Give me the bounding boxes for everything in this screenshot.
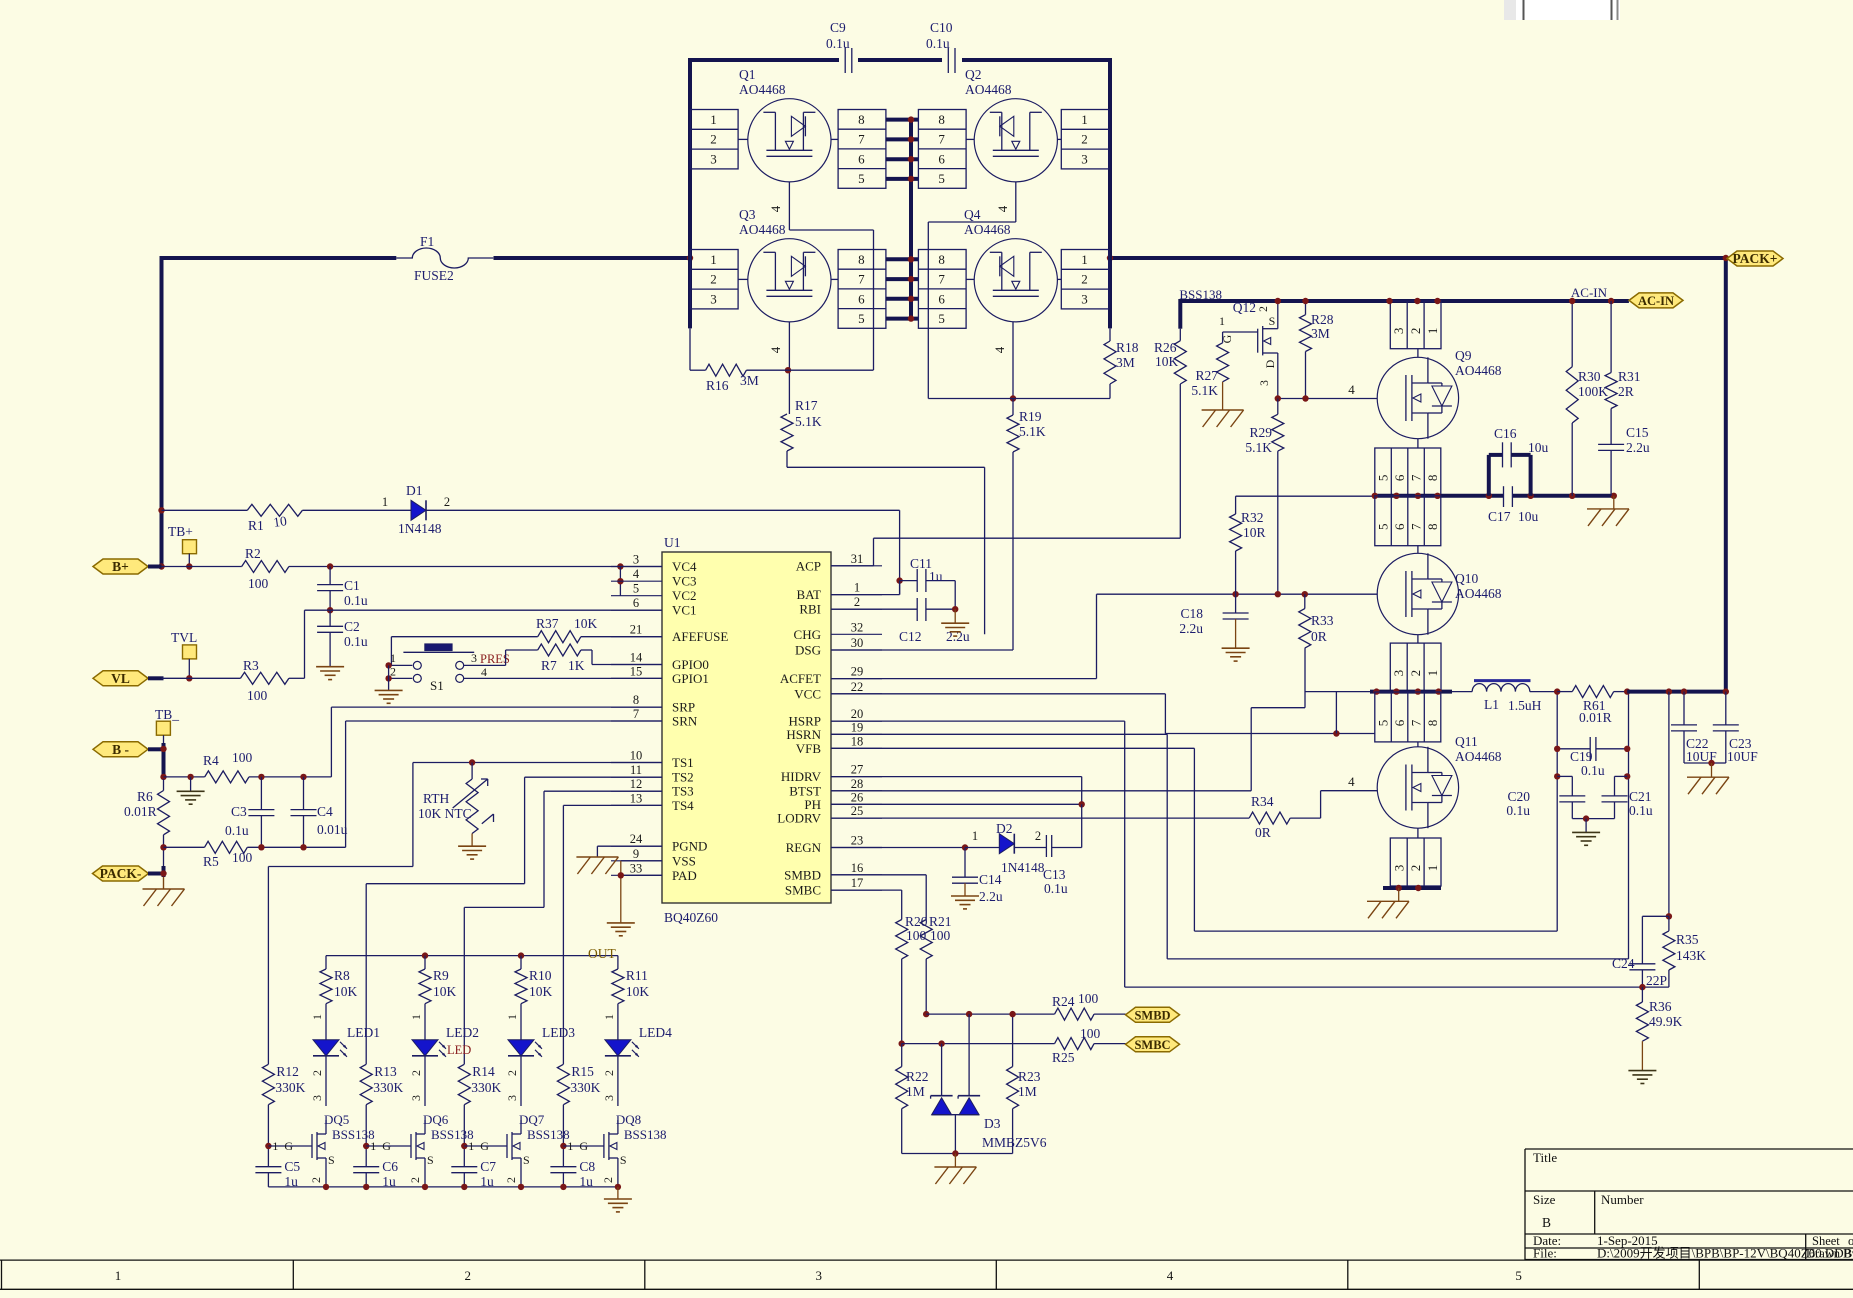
wire: VCC staircase to Q11 box [831,694,1375,734]
svg-text:Q3: Q3 [739,207,756,222]
transistor DQ5 BSS138 [268,1112,374,1183]
svg-text:C14: C14 [979,872,1002,887]
junction C19 left [1554,746,1560,752]
svg-text:Q9: Q9 [1455,348,1472,363]
wire: HSRN to R61 right sense [831,692,1629,959]
svg-text:R15: R15 [571,1064,594,1079]
wire: PH row [831,803,1082,805]
svg-text:2: 2 [464,1268,471,1283]
wire: pin4 row y398.5 [928,398,1110,400]
svg-text:1M: 1M [1018,1084,1037,1099]
svg-text:1: 1 [710,112,717,127]
svg-text:13: 13 [630,791,643,805]
svg-text:R6: R6 [137,789,153,804]
resistor R29 5.1K [1245,399,1283,595]
capacitor C15 2.2u [1598,425,1650,496]
svg-text:SMBD: SMBD [1134,1008,1170,1022]
svg-text:Q11: Q11 [1455,734,1478,749]
svg-text:7: 7 [858,132,865,147]
svg-text:1: 1 [710,252,717,267]
junction Q4 pin4 node [1010,395,1016,401]
junctions C16 row [1372,493,1617,499]
svg-text:7: 7 [1409,719,1424,726]
svg-text:1: 1 [602,1014,616,1020]
svg-text:1: 1 [468,1139,474,1153]
resistor R31 2R [1605,301,1640,444]
wire: BTST row [831,648,1305,791]
svg-text:C13: C13 [1043,867,1066,882]
svg-text:1: 1 [505,1014,519,1020]
svg-text:0.01u: 0.01u [317,822,348,837]
wire: SMBD riser [831,875,926,920]
resistor R34 0R [1249,794,1320,840]
svg-text:PACK-: PACK- [100,866,142,881]
junction R4 row [160,774,166,780]
svg-text:C9: C9 [830,20,846,35]
junction PACK- node [160,870,166,876]
wire: D1 to BAT riser [899,510,901,594]
svg-text:5: 5 [938,311,945,326]
port PACK- [93,866,164,881]
svg-text:VSS: VSS [672,853,696,868]
terminal TB_ [155,707,179,749]
svg-text:R23: R23 [1018,1069,1041,1084]
wire: gate column DQ6 [365,1105,367,1167]
svg-text:Size: Size [1533,1192,1556,1207]
svg-text:1M: 1M [906,1084,925,1099]
wire: Q3 thick stubs to bus [886,259,919,318]
svg-text:B+: B+ [112,559,129,574]
svg-text:HSRN: HSRN [786,727,821,742]
ground C22/C23 [1687,763,1729,794]
svg-text:0.1u: 0.1u [926,36,950,51]
capacitor C24 22P [1612,956,1667,988]
label AC-IN net [1571,285,1608,300]
svg-text:SMBC: SMBC [1134,1038,1170,1052]
wire: AC-IN thick rail [1180,299,1629,329]
junction R21/SMBD row [923,1011,929,1017]
svg-text:4: 4 [1167,1268,1174,1283]
svg-text:GPIO1: GPIO1 [672,671,709,686]
svg-text:2: 2 [309,1177,323,1183]
svg-text:8: 8 [858,112,865,127]
svg-text:C1: C1 [344,578,360,593]
svg-text:DSG: DSG [795,643,821,658]
junction Q12 source [1275,298,1281,304]
svg-text:2R: 2R [1618,384,1634,399]
svg-text:2.2u: 2.2u [1626,440,1650,455]
svg-text:TS4: TS4 [672,798,694,813]
junction VCC stair tee [1333,730,1339,736]
svg-text:C2: C2 [344,619,360,634]
svg-text:DQ7: DQ7 [519,1112,545,1127]
svg-text:100: 100 [248,576,269,591]
capacitor C19 0.1u [1557,737,1627,778]
svg-text:R2: R2 [245,546,261,561]
svg-text:R13: R13 [374,1064,397,1079]
svg-text:DQ5: DQ5 [324,1112,349,1127]
svg-text:2: 2 [409,1070,423,1076]
inductor L1 1.5uH [1452,681,1557,713]
port AC-IN [1629,293,1683,308]
svg-text:7: 7 [633,707,639,721]
junction B- node [160,746,166,752]
svg-text:7: 7 [938,132,945,147]
svg-text:VC4: VC4 [672,559,697,574]
wire: SMBC net row [902,1043,1055,1045]
junction rail end [615,1184,621,1190]
junction S1 pin2 [385,675,391,681]
resistor R18 3M [1104,328,1139,398]
svg-text:GPIO0: GPIO0 [672,657,709,672]
wire: Q9 pin4 row [1278,382,1377,399]
svg-text:0.01R: 0.01R [124,804,157,819]
junction R35 top [1666,913,1672,919]
resistor R12 330K [262,1064,305,1105]
svg-text:15: 15 [630,664,643,678]
svg-text:4: 4 [1348,774,1355,789]
junction R28 bottom [1302,395,1308,401]
junction B+ hex node [158,563,164,569]
wire: tee from switch row [1335,692,1337,734]
svg-text:10R: 10R [1243,525,1266,540]
wire: main B+ thick rail y258 [162,256,397,260]
resistor R1 10 [162,504,386,533]
wire: SRN riser [346,721,662,847]
ground PACK- [143,877,185,906]
svg-text:1: 1 [1081,112,1088,127]
svg-text:21: 21 [630,623,643,637]
svg-text:10K NTC: 10K NTC [418,806,472,821]
svg-text:8: 8 [1425,475,1440,482]
svg-text:10UF: 10UF [1727,749,1758,764]
svg-text:28: 28 [851,777,864,791]
svg-text:6: 6 [858,151,865,166]
junction gate DQ5 [265,1143,271,1149]
svg-text:C7: C7 [480,1159,496,1174]
resistor R23 1M [1007,1014,1041,1153]
svg-text:SRN: SRN [672,714,698,729]
capacitor C20 0.1u [1506,776,1586,818]
wire: HSRP to R36 node [831,721,1641,987]
wire: rail from fuse to Q-block [494,256,691,260]
svg-text:22P: 22P [1646,973,1667,988]
ground LED rail [604,1187,632,1212]
resistor R15 330K [557,1064,600,1105]
wire: S1 pin3 jog [464,650,538,665]
svg-text:2: 2 [444,495,450,509]
junction TB+ stub [186,563,192,569]
svg-text:0.1u: 0.1u [1506,803,1530,818]
svg-text:File:: File: [1533,1246,1557,1261]
svg-text:BAT: BAT [796,587,821,602]
wire: C16/C17 thick row [1375,494,1614,498]
svg-text:LED: LED [447,1043,471,1057]
svg-text:PH: PH [804,797,821,812]
svg-text:AO4468: AO4468 [739,222,786,237]
svg-text:10u: 10u [1518,509,1539,524]
junction C4 top [300,774,306,780]
junction R29 bottom [1275,591,1281,597]
wire: HIDRV row [831,777,1082,805]
junction Q12 drain node [1275,395,1281,401]
wire: SRP riser [331,707,662,777]
svg-text:14: 14 [630,651,643,665]
svg-text:L1: L1 [1484,697,1499,712]
svg-text:R36: R36 [1649,999,1672,1014]
svg-text:R22: R22 [906,1069,929,1084]
junction C3 bottom [258,844,264,850]
wire: TS3 staircase to Q7 gate [464,791,662,1064]
svg-text:R10: R10 [529,968,552,983]
svg-text:26: 26 [851,790,864,804]
svg-text:1N4148: 1N4148 [1001,860,1045,875]
transistor Q12 BSS138 [1179,287,1277,399]
svg-text:1: 1 [272,1139,278,1153]
junction C3 top [258,774,264,780]
screen artifact top [1504,0,1620,20]
resistor R27 5.1K [1191,343,1228,410]
resistor R10 10K [505,956,553,1040]
svg-text:100: 100 [247,688,268,703]
ground C15 row [1587,496,1629,526]
resistor R22 1M [896,1044,929,1154]
junction VC3/VC2 tap [617,563,623,595]
resistor R13 330K [360,1064,403,1105]
svg-text:ACP: ACP [796,558,821,573]
resistor R14 330K [458,1064,501,1105]
svg-text:0R: 0R [1311,629,1327,644]
svg-text:2: 2 [504,1177,518,1183]
transistor Q2 AO4468 [918,67,1109,188]
svg-text:R4: R4 [203,753,219,768]
svg-text:S: S [1269,314,1276,328]
svg-text:3: 3 [1259,380,1271,386]
junction R61 left [1554,688,1560,694]
svg-text:2: 2 [602,1070,616,1076]
wire: LED bottom rail [268,1186,618,1188]
wire: OUT rail [326,946,618,961]
transistor Q9 AO4468 [1375,301,1502,496]
capacitor C11 1u [900,556,956,609]
junctions LED bottom rail [323,1184,567,1190]
wire: R3 to VC1 row [305,610,663,678]
thermistor RTH 10K NTC [418,763,494,847]
wire: TS4 riser to Q8 gate [563,805,662,1064]
svg-text:0.1u: 0.1u [225,823,249,838]
svg-text:3: 3 [1391,865,1406,872]
ground R4 tap [177,774,205,805]
svg-text:330K: 330K [275,1080,305,1095]
junction rail/PACK+ corner [1723,255,1729,261]
svg-text:100: 100 [930,928,951,943]
svg-text:R32: R32 [1241,510,1264,525]
port VL [93,671,164,686]
capacitor C21 0.1u [1586,776,1653,818]
svg-text:LED2: LED2 [446,1025,479,1040]
svg-text:C8: C8 [579,1159,595,1174]
ground Q11 [1367,888,1409,918]
svg-text:C20: C20 [1507,789,1530,804]
svg-text:5: 5 [1376,475,1391,482]
svg-text:C21: C21 [1629,789,1652,804]
svg-text:5: 5 [858,311,865,326]
resistor R11 10K [602,956,650,1040]
resistor R25 100 [1052,1026,1126,1065]
wire: gate column DQ5 [267,1105,269,1167]
junction R23 top [1009,1011,1015,1017]
svg-text:G: G [579,1139,588,1153]
svg-text:BSS138: BSS138 [624,1127,667,1142]
svg-text:D2: D2 [996,821,1013,836]
wire: R35 top riser [1668,692,1670,917]
resistor R6 0.01R [124,779,170,868]
wire: DQ7 source to rail [520,1172,522,1187]
svg-text:1: 1 [370,1139,376,1153]
resistor R19 5.1K [1007,399,1046,453]
title block [1525,1149,1853,1261]
wire: TS1 staircase to Q5 gate [268,763,413,1065]
svg-text:0.1u: 0.1u [826,36,850,51]
resistor R21 100 [920,914,951,1014]
junction C1 top [327,563,333,569]
svg-text:12: 12 [630,777,643,791]
svg-text:Title: Title [1533,1150,1557,1165]
diode D1 1N4148 [382,483,900,536]
wire: Q1 thick stubs to bus [886,120,919,179]
svg-text:5: 5 [1376,720,1391,727]
junction PAD [618,872,624,878]
svg-text:1: 1 [567,1139,573,1153]
junction D3 left top [938,1040,944,1046]
resistor R61 0.01R [1557,686,1627,725]
svg-text:3: 3 [602,1095,616,1101]
wire: B- thick vertical [162,743,166,779]
resistor R32 10R [1230,496,1375,594]
junction C4 bottom [300,844,306,850]
svg-text:R37: R37 [536,616,559,631]
svg-text:2: 2 [854,595,860,609]
svg-text:4: 4 [768,205,783,212]
junctions Q11 bottom [1396,885,1422,891]
ground D3 [934,1154,976,1185]
svg-text:1: 1 [1425,328,1440,335]
ground PGND [576,846,662,874]
ground C20/C21 [1572,819,1600,846]
svg-text:AC-IN: AC-IN [1571,285,1608,300]
svg-text:3: 3 [505,1095,519,1101]
svg-text:C4: C4 [317,804,333,819]
svg-text:Q4: Q4 [964,207,981,222]
svg-text:0.1u: 0.1u [344,634,368,649]
svg-text:U1: U1 [664,535,681,550]
junction BAT/C11 [831,577,903,594]
svg-text:G: G [1220,334,1234,343]
LED LED1 [313,1025,380,1057]
junction R10 top [518,952,524,958]
svg-text:SMBC: SMBC [785,883,821,898]
svg-text:TS2: TS2 [672,770,694,785]
capacitor C2 0.1u [317,610,368,667]
resistor R9 10K [409,956,457,1040]
wire: gate column DQ8 [562,1105,564,1167]
svg-text:C6: C6 [382,1159,398,1174]
wire: rail Q-block to PACK+ corner [1110,256,1726,692]
capacitor C17 10u [1488,486,1539,524]
wire: VSS/PAD chain [621,861,662,923]
svg-text:SRP: SRP [672,700,695,715]
svg-text:2: 2 [710,132,717,147]
resistor R3 100 [162,658,305,703]
svg-text:1: 1 [409,1014,423,1020]
svg-text:7: 7 [858,272,865,287]
svg-text:HIDRV: HIDRV [781,769,822,784]
svg-text:330K: 330K [373,1080,403,1095]
svg-text:1K: 1K [568,658,585,673]
svg-text:10K: 10K [334,984,358,999]
svg-text:0.1u: 0.1u [1581,763,1605,778]
LED LED2 [412,1025,479,1057]
svg-text:8: 8 [633,693,639,707]
wire: D3 bottom rail [902,1153,1013,1155]
wire: VFB to R61 left sense [831,692,1557,932]
wire: DQ8 source to rail [617,1172,619,1187]
svg-text:R8: R8 [334,968,350,983]
svg-text:23: 23 [851,834,864,848]
resistor R33 0R [1299,594,1334,648]
ground R27 [1202,410,1244,427]
svg-text:5: 5 [858,171,865,186]
svg-text:1.5uH: 1.5uH [1508,698,1542,713]
svg-text:R27: R27 [1195,368,1218,383]
junction gate DQ7 [461,1143,467,1149]
svg-text:FUSE2: FUSE2 [414,268,454,283]
junction R30 top [1569,298,1575,304]
transistor Q11 AO4468 [1375,692,1502,886]
svg-text:3: 3 [310,1095,324,1101]
wire: TS2 staircase to Q6 gate [366,777,662,1064]
svg-text:1: 1 [310,1014,324,1020]
svg-text:CHG: CHG [794,627,821,642]
junction R20/SMBC row [899,1040,905,1046]
svg-text:1: 1 [1425,865,1440,872]
transistor Q1 AO4468 [690,67,886,188]
wire: LED1 to DQ5 drain [310,1056,326,1106]
svg-text:27: 27 [851,763,864,777]
junction R32/C18 node [1232,591,1238,597]
svg-text:LODRV: LODRV [777,811,821,826]
capacitor C12 2.2u [831,598,970,644]
svg-text:R26: R26 [1154,340,1177,355]
junction R36 top [1639,984,1645,990]
svg-text:8: 8 [938,252,945,267]
svg-text:Drawn By:: Drawn By: [1806,1247,1853,1261]
junctions Q9 top box [1386,298,1440,304]
junction R5 left [160,844,166,850]
svg-text:TS3: TS3 [672,784,694,799]
resistor R24 100 [1052,991,1126,1020]
svg-text:C10: C10 [930,20,953,35]
svg-text:C19: C19 [1570,749,1593,764]
svg-text:6: 6 [1392,474,1407,481]
junction R28 top [1302,298,1308,304]
wire: LED4 to DQ8 drain [602,1056,618,1106]
wire: R34 to Q11 pin4 [1321,774,1378,818]
svg-text:4: 4 [481,665,487,679]
svg-text:2: 2 [1408,328,1423,335]
svg-text:DQ8: DQ8 [616,1112,641,1127]
svg-text:10K: 10K [529,984,553,999]
